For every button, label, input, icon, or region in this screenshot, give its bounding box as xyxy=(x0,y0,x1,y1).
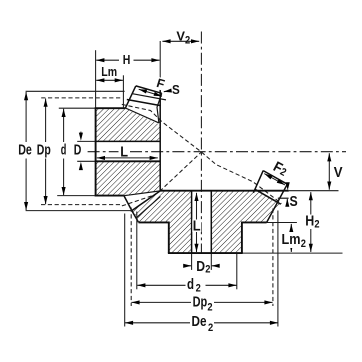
S lower up arrow xyxy=(286,199,288,205)
svg-text:2: 2 xyxy=(301,238,306,250)
upper tooth small-end face xyxy=(157,93,162,123)
lower gear right shoulder extension xyxy=(267,222,297,224)
De2 extension lines xyxy=(124,214,126,327)
S upper arrow xyxy=(164,91,170,92)
d2 dimension line xyxy=(137,284,236,286)
upper gear front face xyxy=(159,90,161,191)
Dp dimension line xyxy=(45,99,47,143)
front face extension line up xyxy=(159,41,161,90)
label d2 xyxy=(186,278,206,291)
lower gear hub right face xyxy=(241,222,243,254)
De2 dimension line xyxy=(125,322,278,324)
svg-text:d: d xyxy=(61,143,67,159)
lower right tooth tip edge xyxy=(263,171,287,185)
svg-text:d: d xyxy=(187,277,194,293)
Dp2 extension lines dashed xyxy=(130,208,132,307)
D leader arrows xyxy=(80,132,82,136)
L lower dimension xyxy=(196,193,198,252)
S lower reference line xyxy=(278,197,289,199)
svg-text:L: L xyxy=(193,219,201,235)
dimension Lm line xyxy=(96,79,123,81)
d dimension line xyxy=(63,109,65,142)
hatch upper gear body below bore xyxy=(96,161,160,195)
upper gear top face xyxy=(95,107,126,109)
svg-text:2: 2 xyxy=(314,219,319,231)
svg-text:Dp: Dp xyxy=(193,295,208,311)
lower gear hub bottom extension right xyxy=(243,252,343,254)
upper tooth tip line xyxy=(136,86,162,93)
Dp extension top dashed xyxy=(41,97,122,99)
mesh: lower gear left tooth tip line xyxy=(132,191,160,211)
mesh: lower gear left tooth inner line xyxy=(137,196,161,217)
Lm2 dimension xyxy=(290,224,292,252)
label Dp2 xyxy=(191,296,214,311)
S lower down arrow xyxy=(286,182,290,190)
svg-text:2: 2 xyxy=(207,302,212,314)
F dimension arrow xyxy=(139,89,162,96)
upper tooth inner line xyxy=(127,100,161,106)
D2 extension lines xyxy=(191,254,193,270)
svg-text:Lm: Lm xyxy=(101,65,117,79)
d2 extension lines xyxy=(136,212,138,290)
upper gear bore top line xyxy=(95,140,161,142)
V dimension xyxy=(328,153,330,190)
lower gear left shoulder xyxy=(139,221,169,223)
label F xyxy=(151,76,165,91)
lower gear bore right line xyxy=(210,191,212,253)
pitch cone dashed line upper-left to lower-right xyxy=(122,104,282,203)
hatch lower gear left half xyxy=(132,191,192,253)
d extension top xyxy=(59,107,95,109)
De dimension line xyxy=(25,92,27,142)
d extension bottom xyxy=(57,195,94,197)
lower gear bore left line xyxy=(191,191,193,253)
svg-text:2: 2 xyxy=(196,282,201,294)
H left extension line xyxy=(95,50,97,107)
svg-text:V: V xyxy=(334,165,343,181)
L upper dimension xyxy=(119,145,130,157)
label Lm2 xyxy=(281,232,307,248)
svg-text:S: S xyxy=(172,83,180,97)
F2 dimension arrow xyxy=(264,174,285,185)
upper gear bottom face xyxy=(95,195,124,197)
svg-text:2: 2 xyxy=(205,264,210,276)
upper tooth root line xyxy=(125,108,159,123)
svg-text:Dp: Dp xyxy=(37,143,51,159)
horizontal axis (upper gear centerline) xyxy=(88,151,346,153)
mesh: upper bottom tooth big-end face xyxy=(124,196,132,211)
lower gear hub left face xyxy=(168,222,170,254)
Dp extension bottom dashed xyxy=(41,204,122,206)
svg-text:H: H xyxy=(305,214,314,230)
pitch element extension dashed (upper gear cone through apex) xyxy=(257,192,273,204)
lower gear top face extension right xyxy=(289,190,339,192)
De extension top xyxy=(26,90,125,92)
lower gear right shoulder xyxy=(242,221,267,223)
hatch lower gear right half xyxy=(211,190,280,253)
De extension bottom xyxy=(26,210,132,212)
Lm right extension line xyxy=(122,75,124,108)
lower gear hub bottom xyxy=(168,252,243,254)
svg-text:De: De xyxy=(18,143,32,159)
upper gear bore bottom line xyxy=(95,160,161,162)
svg-text:S: S xyxy=(290,194,299,210)
svg-text:De: De xyxy=(192,314,207,330)
dimension V2 line xyxy=(162,40,199,42)
upper gear back face xyxy=(95,107,97,196)
mesh: upper bottom tooth root line xyxy=(124,191,160,196)
Dp2 dimension line xyxy=(131,301,272,303)
svg-text:Lm: Lm xyxy=(282,232,301,248)
label De2 xyxy=(190,316,214,331)
H2 dimension xyxy=(310,192,312,252)
hatch upper gear body above bore xyxy=(96,108,160,141)
D2 dimension arrows xyxy=(184,265,191,267)
lower gear top face xyxy=(160,190,289,192)
svg-text:D: D xyxy=(196,259,205,275)
vertical axis (lower gear centerline) xyxy=(200,32,202,254)
lower gear rim right face xyxy=(267,184,288,222)
upper tooth tip line xyxy=(132,94,166,100)
label H2 xyxy=(305,215,321,230)
upper tooth big-end face xyxy=(125,86,136,108)
dimension H line xyxy=(96,59,119,61)
mesh: lower gear left tooth big-end face xyxy=(132,211,139,223)
pitch cone dashed line mesh side xyxy=(122,152,201,206)
svg-text:H: H xyxy=(123,53,131,67)
svg-text:D: D xyxy=(74,143,82,159)
lower right tooth small-end face xyxy=(253,171,263,193)
svg-text:2: 2 xyxy=(185,35,190,47)
svg-text:L: L xyxy=(120,144,128,160)
svg-text:2: 2 xyxy=(208,322,213,334)
lower right tooth inner line xyxy=(255,189,281,204)
